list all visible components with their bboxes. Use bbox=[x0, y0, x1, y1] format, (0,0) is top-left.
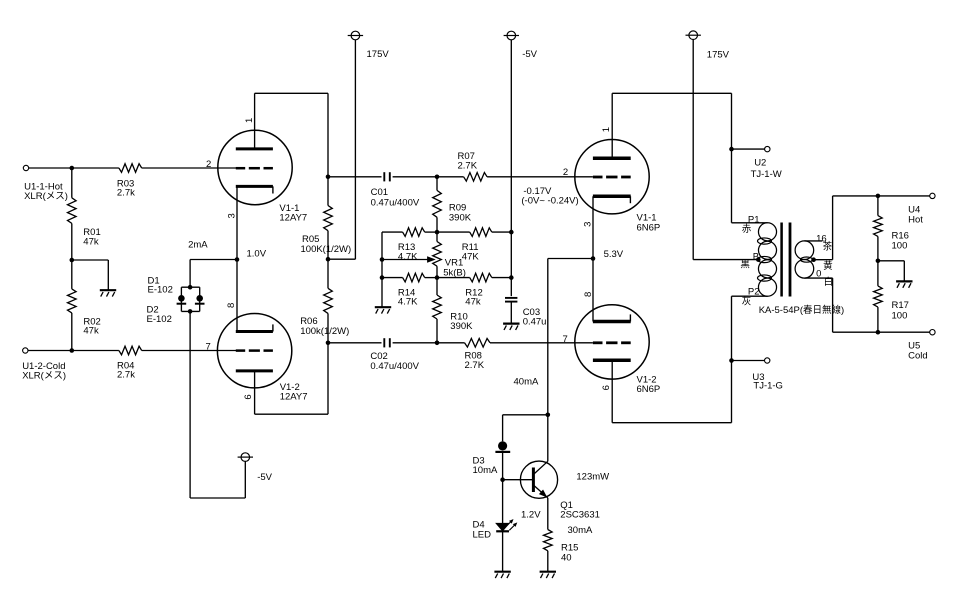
svg-text:3: 3 bbox=[583, 222, 594, 227]
svg-text:XLR(メス): XLR(メス) bbox=[22, 370, 66, 381]
svg-text:灰: 灰 bbox=[742, 296, 752, 308]
svg-text:1: 1 bbox=[244, 118, 255, 123]
svg-text:Cold: Cold bbox=[908, 350, 928, 361]
svg-text:1: 1 bbox=[601, 127, 612, 132]
svg-text:47k: 47k bbox=[83, 326, 99, 337]
svg-text:-5V: -5V bbox=[522, 49, 537, 60]
svg-text:2: 2 bbox=[206, 159, 211, 170]
svg-text:KA-5-54P(春日無線): KA-5-54P(春日無線) bbox=[759, 304, 845, 316]
svg-text:XLR(メス): XLR(メス) bbox=[24, 191, 68, 202]
svg-text:赤: 赤 bbox=[742, 224, 752, 235]
svg-text:B: B bbox=[753, 252, 759, 263]
svg-text:4.7K: 4.7K bbox=[398, 251, 418, 262]
svg-text:47k: 47k bbox=[83, 236, 99, 247]
svg-text:47k: 47k bbox=[465, 296, 481, 307]
svg-text:E-102: E-102 bbox=[148, 285, 173, 296]
svg-text:390K: 390K bbox=[449, 212, 472, 223]
svg-text:0.47u: 0.47u bbox=[523, 316, 547, 327]
svg-text:TJ-1-G: TJ-1-G bbox=[753, 381, 783, 392]
svg-text:白: 白 bbox=[824, 276, 834, 288]
svg-text:2.7K: 2.7K bbox=[465, 360, 485, 371]
svg-text:0: 0 bbox=[816, 269, 821, 280]
svg-text:6N6P: 6N6P bbox=[637, 384, 661, 395]
svg-text:1.2V: 1.2V bbox=[521, 510, 541, 521]
svg-text:47K: 47K bbox=[462, 251, 480, 262]
svg-text:40mA: 40mA bbox=[514, 376, 539, 387]
svg-text:5k(B): 5k(B) bbox=[443, 268, 466, 279]
svg-text:5.3V: 5.3V bbox=[604, 249, 624, 260]
svg-text:10mA: 10mA bbox=[473, 465, 498, 476]
svg-text:6: 6 bbox=[601, 385, 612, 390]
svg-text:2.7k: 2.7k bbox=[117, 188, 135, 199]
svg-text:3: 3 bbox=[227, 213, 238, 218]
svg-text:1.0V: 1.0V bbox=[247, 249, 267, 260]
svg-text:12AY7: 12AY7 bbox=[280, 391, 308, 402]
svg-text:8: 8 bbox=[583, 292, 594, 297]
svg-text:黄: 黄 bbox=[823, 260, 833, 272]
svg-text:-5V: -5V bbox=[257, 472, 272, 483]
svg-text:TJ-1-W: TJ-1-W bbox=[751, 169, 782, 180]
svg-text:390K: 390K bbox=[450, 321, 473, 332]
svg-text:LED: LED bbox=[473, 529, 492, 540]
svg-text:2.7K: 2.7K bbox=[458, 160, 478, 171]
svg-text:100k(1/2W): 100k(1/2W) bbox=[300, 326, 349, 337]
svg-text:12AY7: 12AY7 bbox=[279, 213, 307, 224]
svg-text:U2: U2 bbox=[754, 158, 766, 169]
svg-text:Hot: Hot bbox=[908, 215, 923, 226]
svg-text:30mA: 30mA bbox=[568, 525, 593, 536]
svg-text:2.7k: 2.7k bbox=[117, 370, 135, 381]
svg-text:(-0V~ -0.24V): (-0V~ -0.24V) bbox=[521, 196, 578, 207]
svg-text:175V: 175V bbox=[367, 49, 390, 60]
svg-text:茶: 茶 bbox=[823, 241, 833, 253]
svg-text:E-102: E-102 bbox=[147, 314, 172, 325]
svg-text:123mW: 123mW bbox=[576, 472, 609, 483]
svg-text:7: 7 bbox=[206, 342, 211, 353]
svg-text:0.47u/400V: 0.47u/400V bbox=[371, 197, 420, 208]
svg-text:100: 100 bbox=[892, 241, 908, 252]
svg-text:100K(1/2W): 100K(1/2W) bbox=[301, 244, 352, 255]
svg-text:40: 40 bbox=[561, 552, 572, 563]
svg-text:4.7K: 4.7K bbox=[398, 296, 418, 307]
svg-text:2mA: 2mA bbox=[188, 240, 208, 251]
svg-text:8: 8 bbox=[226, 303, 237, 308]
svg-text:0.47u/400V: 0.47u/400V bbox=[370, 361, 419, 372]
svg-text:黒: 黒 bbox=[740, 260, 750, 271]
svg-text:175V: 175V bbox=[707, 49, 730, 60]
svg-text:100: 100 bbox=[892, 310, 908, 321]
svg-text:2: 2 bbox=[563, 167, 568, 178]
svg-text:6: 6 bbox=[243, 394, 254, 399]
svg-text:6N6P: 6N6P bbox=[637, 223, 661, 234]
svg-text:7: 7 bbox=[563, 334, 568, 345]
svg-text:2SC3631: 2SC3631 bbox=[560, 510, 600, 521]
